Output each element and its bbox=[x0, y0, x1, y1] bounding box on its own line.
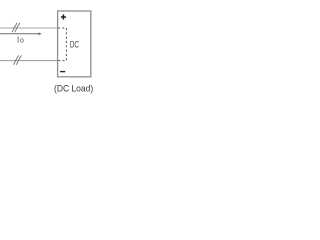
svg-text:I: I bbox=[17, 35, 19, 44]
svg-text:o: o bbox=[20, 38, 24, 45]
svg-text:(DC Load): (DC Load) bbox=[54, 83, 93, 93]
svg-text:DC: DC bbox=[70, 40, 79, 50]
